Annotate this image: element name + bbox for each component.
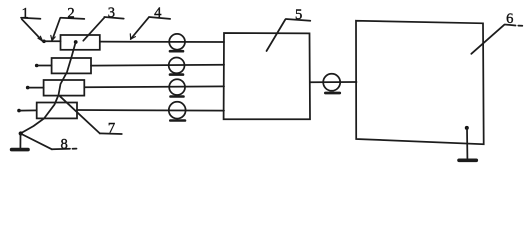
svg-text:3: 3 — [108, 5, 115, 21]
svg-text:7: 7 — [108, 121, 115, 137]
svg-text:4: 4 — [154, 5, 162, 21]
svg-text:1: 1 — [22, 6, 29, 22]
svg-text:8: 8 — [60, 137, 67, 153]
svg-text:5: 5 — [295, 7, 302, 23]
svg-text:2: 2 — [67, 6, 74, 22]
svg-text:6: 6 — [506, 11, 513, 27]
